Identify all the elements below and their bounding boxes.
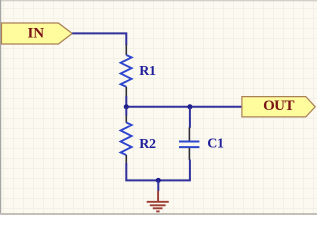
wire node B to OUT: [190, 106, 242, 108]
resistor R1: [121, 45, 156, 97]
wire node A to node B: [126, 106, 190, 108]
capacitor C1: [179, 127, 224, 159]
svg-text:OUT: OUT: [263, 98, 294, 114]
svg-text:IN: IN: [27, 25, 44, 41]
svg-text:C1: C1: [207, 136, 224, 151]
wire node A to R2: [125, 107, 127, 116]
wire R1 to node A: [125, 96, 127, 107]
svg-text:R1: R1: [139, 64, 156, 79]
wire ground rail to C1: [158, 160, 190, 181]
port IN: [2, 23, 73, 44]
junction node B: [187, 104, 192, 109]
wire IN to R1: [72, 33, 126, 45]
junction node A: [124, 104, 129, 109]
resistor R2: [121, 115, 156, 163]
wire ground stub: [157, 180, 159, 191]
ground: [147, 191, 169, 212]
port OUT: [242, 97, 315, 117]
wire node B to C1: [189, 107, 191, 128]
svg-text:R2: R2: [139, 137, 156, 152]
junction ground node: [156, 178, 161, 183]
wire R2 to ground rail: [126, 163, 158, 180]
